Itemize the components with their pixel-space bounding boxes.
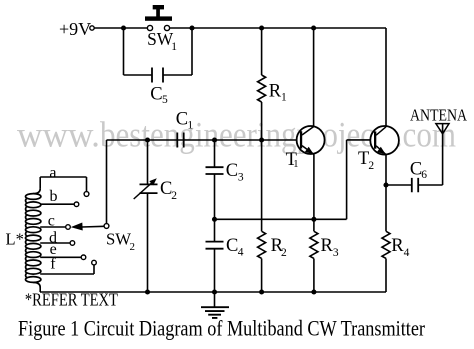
- svg-text:R: R: [269, 81, 282, 101]
- svg-text:4: 4: [238, 247, 244, 259]
- svg-text:a: a: [49, 164, 56, 181]
- svg-text:ANTENA: ANTENA: [410, 105, 467, 124]
- svg-text:1: 1: [293, 159, 298, 170]
- svg-text:2: 2: [281, 247, 287, 259]
- svg-text:SW: SW: [147, 29, 174, 49]
- svg-text:3: 3: [238, 171, 244, 183]
- svg-text:SW: SW: [106, 230, 131, 249]
- svg-text:+9V: +9V: [59, 19, 91, 39]
- svg-text:2: 2: [130, 241, 136, 253]
- svg-text:L*: L*: [6, 229, 24, 248]
- svg-text:1: 1: [187, 120, 193, 132]
- svg-text:*REFER TEXT: *REFER TEXT: [25, 290, 118, 310]
- svg-text:R: R: [391, 236, 404, 256]
- svg-text:6: 6: [421, 169, 427, 181]
- svg-text:2: 2: [368, 160, 374, 172]
- svg-text:C: C: [226, 236, 238, 256]
- svg-text:C: C: [176, 109, 188, 129]
- svg-text:C: C: [226, 161, 238, 181]
- svg-text:f: f: [50, 255, 56, 272]
- svg-text:c: c: [48, 213, 55, 230]
- svg-text:5: 5: [162, 94, 168, 106]
- svg-text:4: 4: [404, 247, 410, 259]
- svg-text:b: b: [50, 188, 58, 205]
- svg-text:3: 3: [333, 247, 339, 259]
- svg-text:Figure 1 Circuit Diagram of Mu: Figure 1 Circuit Diagram of Multiband CW…: [18, 316, 426, 340]
- svg-text:R: R: [321, 236, 334, 256]
- svg-text:2: 2: [171, 190, 177, 202]
- svg-text:C: C: [150, 84, 162, 104]
- svg-text:1: 1: [171, 41, 177, 53]
- svg-text:1: 1: [281, 92, 287, 104]
